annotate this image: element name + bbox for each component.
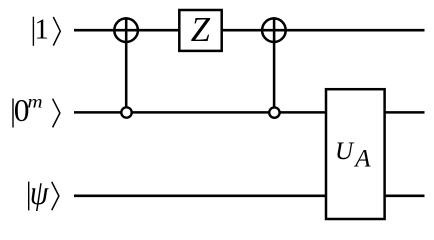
gate U_A box [326, 89, 385, 219]
gate U_A label [335, 138, 371, 173]
label ket |psi> on q2 [29, 174, 59, 211]
label ket |0^m> on q1 [13, 93, 60, 128]
svg-text:U: U [335, 138, 355, 165]
wire q1 (middle) [74, 111, 425, 114]
svg-text:ψ: ψ [30, 174, 49, 211]
svg-text:m: m [27, 93, 42, 112]
svg-text:A: A [353, 146, 371, 173]
CNOT target on q0 (second) [262, 18, 286, 42]
wire control line CNOT2 [273, 17, 276, 112]
gate Z label [191, 11, 211, 49]
wire q0 (top) [74, 29, 425, 32]
svg-text:1: 1 [34, 14, 49, 46]
label ket |1> on q0 [33, 14, 60, 46]
CNOT target on q0 (first) [114, 18, 138, 42]
open-circle control on q1 (first) [121, 107, 131, 117]
open-circle control on q1 (second) [269, 107, 279, 117]
wire control line CNOT1 [125, 17, 128, 112]
svg-text:Z: Z [191, 11, 211, 49]
wire q2 (bottom) [74, 195, 425, 198]
gate Z box [179, 10, 221, 51]
